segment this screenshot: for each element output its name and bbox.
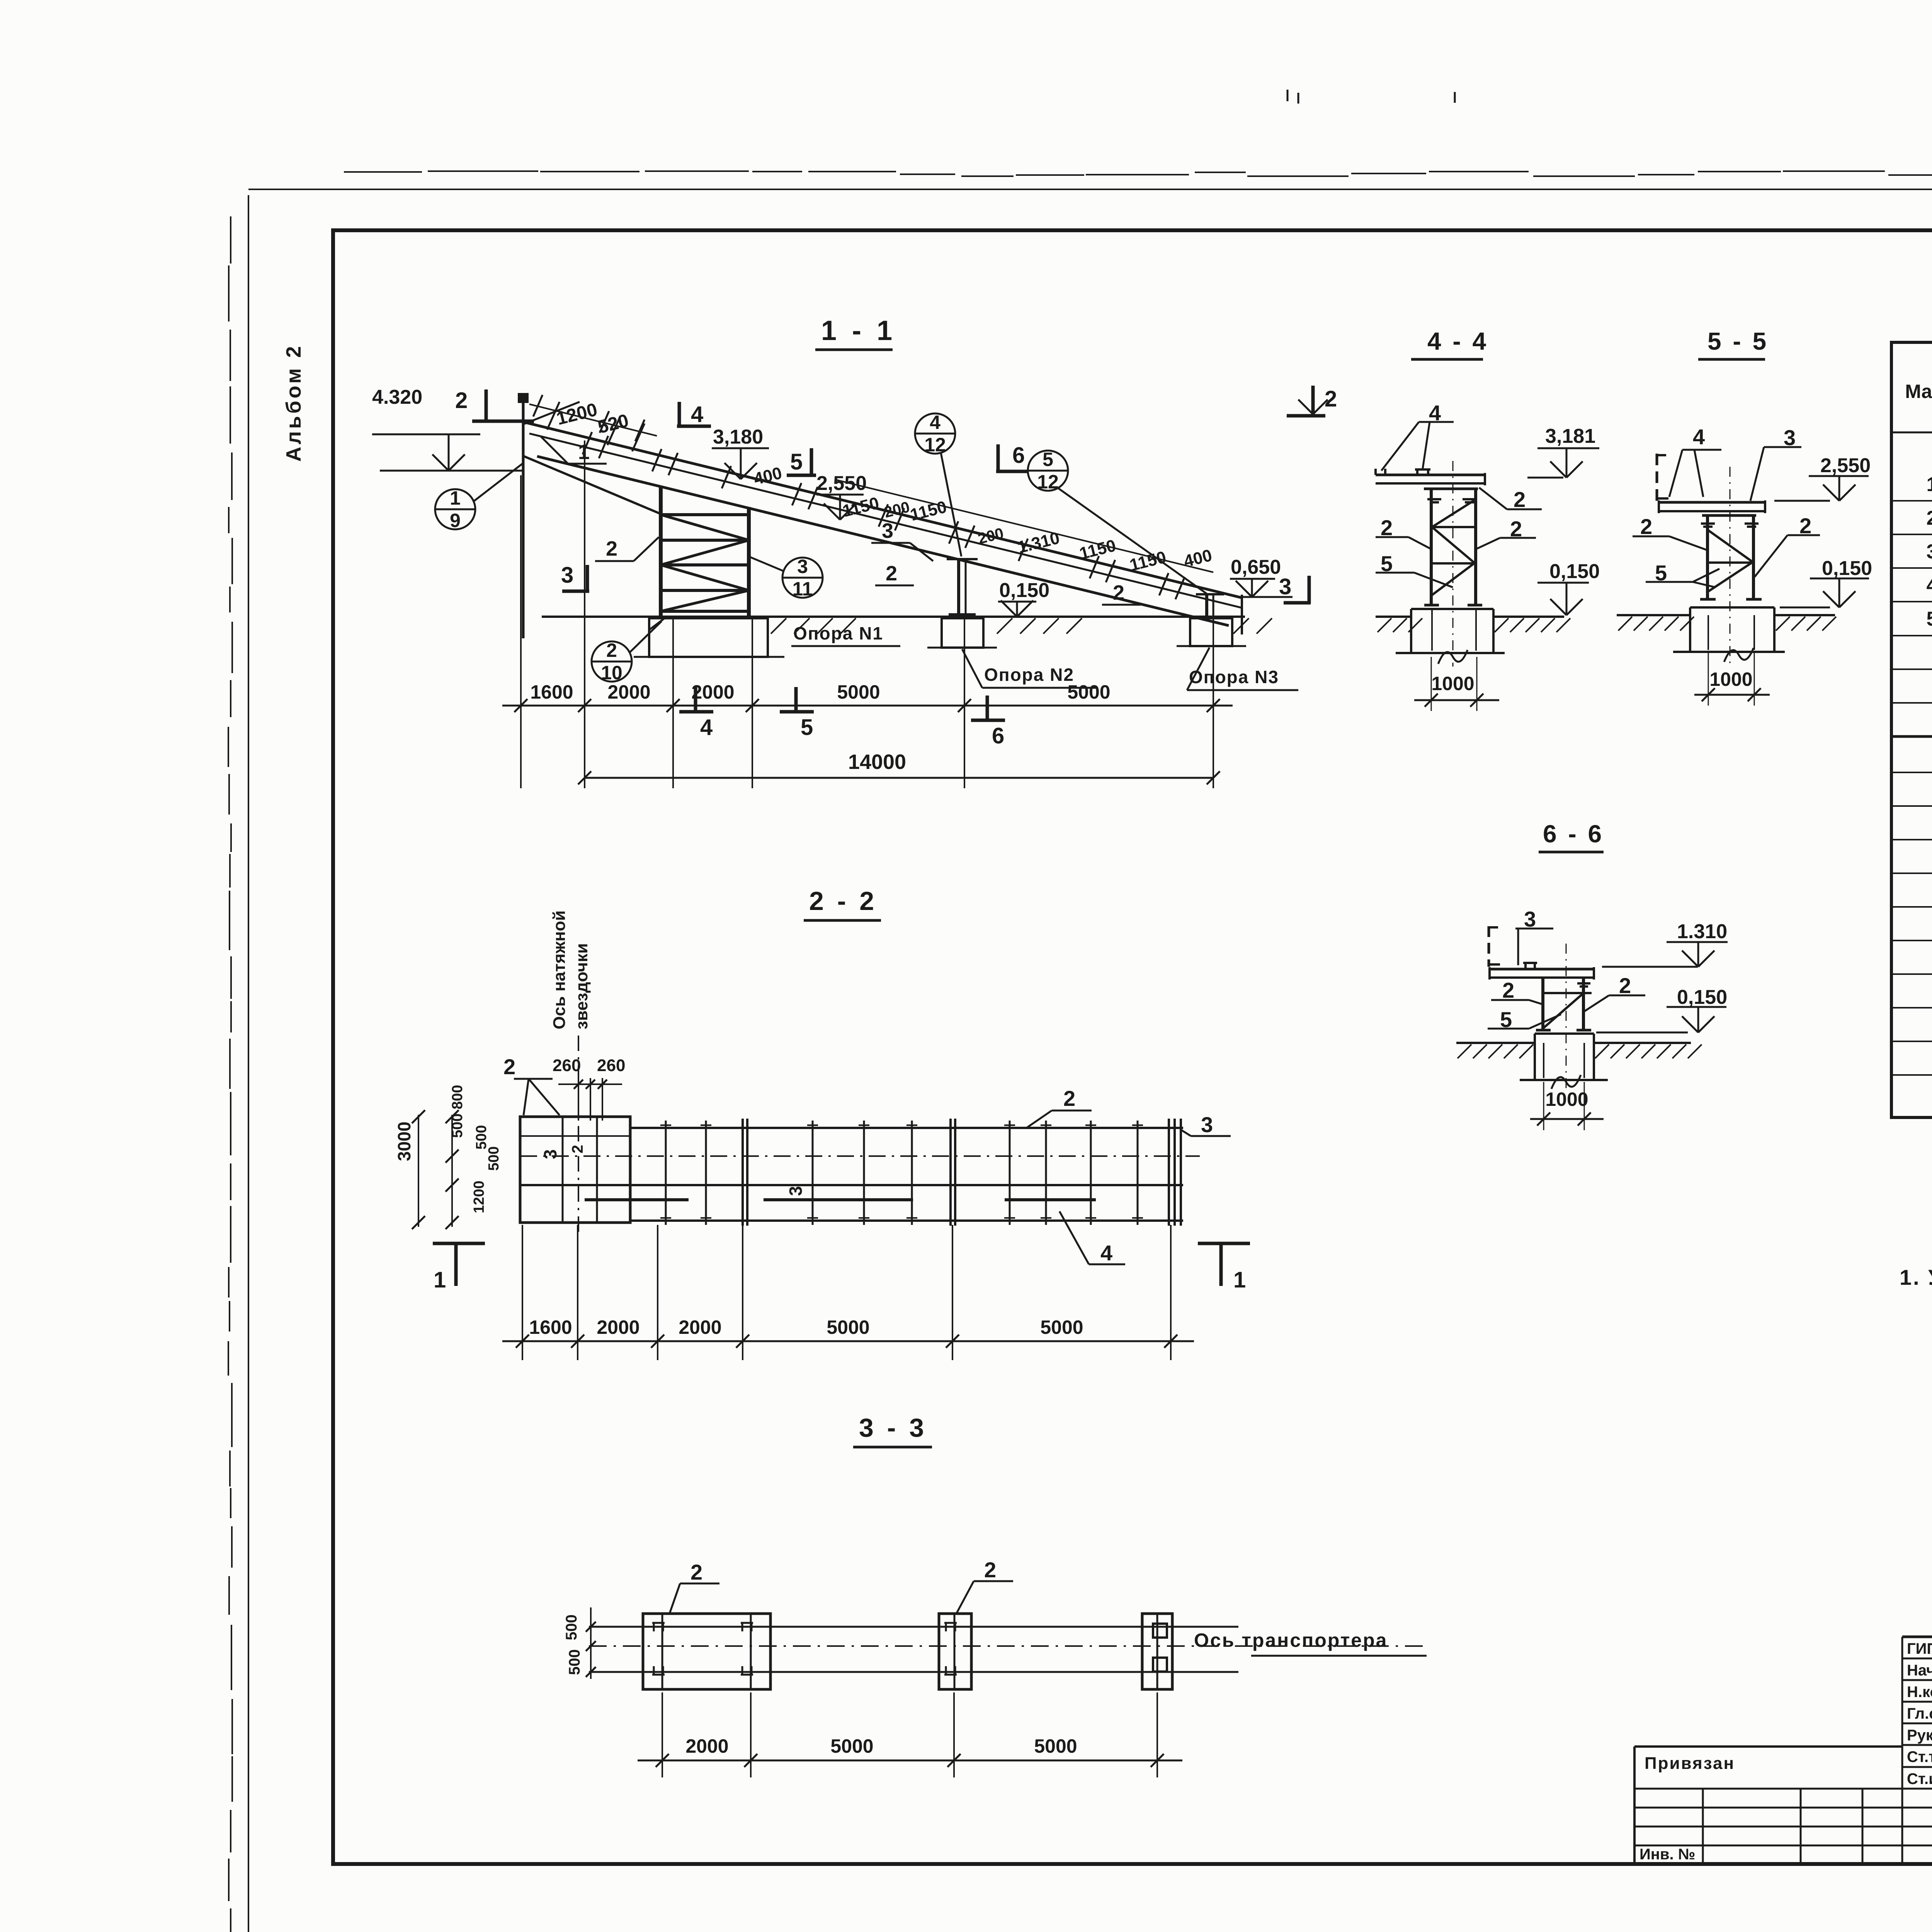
6-6 deck clip (1524, 962, 1527, 969)
svg-text:4: 4 (1100, 1241, 1112, 1265)
svg-text:Ст.инж.: Ст.инж. (1907, 1770, 1932, 1787)
svg-text:400: 400 (1182, 546, 1214, 571)
opora N1 lattice tower left column (659, 486, 663, 618)
3-3 right footing column (1156, 1614, 1158, 1689)
table second section row lines (1891, 772, 1932, 773)
svg-text:200: 200 (976, 525, 1005, 548)
svg-text:Рук.гр.: Рук.гр. (1907, 1727, 1932, 1744)
svg-text:2: 2 (1502, 978, 1514, 1002)
6-6 flange marks right (1577, 982, 1590, 985)
svg-text:Ось транспортера: Ось транспортера (1194, 1629, 1388, 1651)
svg-text:2: 2 (984, 1558, 996, 1582)
svg-text:2: 2 (1619, 973, 1631, 998)
svg-text:1: 1 (450, 487, 461, 509)
svg-text:1000: 1000 (1431, 673, 1474, 694)
plan top rail (630, 1127, 1183, 1129)
3-3 channel clips mid footing (945, 1622, 947, 1631)
svg-text:3: 3 (1279, 574, 1291, 599)
svg-text:1.310: 1.310 (1677, 920, 1727, 943)
svg-text:2: 2 (886, 562, 897, 585)
svg-text:Опора N2: Опора N2 (984, 665, 1074, 685)
mark circle 3/11 (782, 558, 823, 598)
mark circle 4/12 (915, 413, 955, 454)
svg-text:260: 260 (597, 1056, 625, 1075)
4-4 foundation (1411, 608, 1493, 610)
svg-text:1200: 1200 (554, 399, 599, 429)
5-5 cap plate (1702, 514, 1756, 517)
svg-text:2000: 2000 (597, 1316, 639, 1338)
table first section row lines (1891, 500, 1932, 502)
5-5 break squiggle (1724, 648, 1753, 662)
svg-text:4.320: 4.320 (372, 386, 422, 408)
section flag 6 bottom (986, 696, 989, 719)
opora N2 foundation (942, 618, 983, 648)
ground hatch N2 to N3 patch (997, 618, 1012, 634)
svg-text:2: 2 (1325, 386, 1337, 412)
3-3 right footing (1142, 1614, 1172, 1689)
4-4 column flanges (1430, 489, 1433, 605)
4-4 centerline (1452, 461, 1454, 667)
svg-text:Гл.спец.: Гл.спец. (1907, 1705, 1932, 1722)
top stray marks (1287, 90, 1289, 101)
svg-text:5000: 5000 (837, 681, 880, 703)
5-5 base plates (1700, 598, 1716, 601)
svg-text:3: 3 (797, 556, 808, 577)
3-3 top line (589, 1626, 1238, 1628)
svg-text:5000: 5000 (1040, 1316, 1083, 1338)
plan dashed chord segments (585, 1198, 689, 1201)
5-5 deck plank (1659, 501, 1765, 504)
svg-text:0,150: 0,150 (1822, 557, 1872, 580)
section marker 1 right (1198, 1242, 1250, 1245)
section flag 4 bottom (694, 687, 697, 711)
truss joint ticks (583, 432, 592, 454)
5-5 foundation (1690, 606, 1774, 609)
section flag 5 bottom (794, 687, 798, 711)
4-4 column braces (1431, 526, 1476, 528)
svg-text:Привязан: Привязан (1645, 1754, 1735, 1773)
svg-text:2000: 2000 (679, 1316, 721, 1338)
mast dim line along chord (529, 404, 657, 436)
opora N2 base (949, 613, 976, 616)
svg-text:2: 2 (569, 1145, 586, 1153)
privyazan box (1634, 1745, 1902, 1748)
6-6 foundation (1535, 1032, 1594, 1035)
plan center dashdot (520, 1155, 1200, 1157)
svg-text:5: 5 (1043, 449, 1053, 470)
3-3 left footing columns (662, 1614, 663, 1689)
svg-text:2: 2 (1063, 1086, 1075, 1111)
svg-text:6: 6 (992, 723, 1004, 748)
svg-text:2,550: 2,550 (816, 472, 867, 495)
svg-text:1150: 1150 (841, 493, 881, 521)
6-6 column flanges (1541, 978, 1544, 1030)
svg-text:1000: 1000 (1709, 668, 1752, 690)
svg-text:2: 2 (1927, 507, 1932, 529)
svg-text:4: 4 (691, 402, 703, 427)
svg-text:Опора N1: Опора N1 (793, 623, 883, 643)
svg-text:0,650: 0,650 (1231, 556, 1281, 578)
5-5 centerline (1730, 467, 1731, 664)
svg-text:4 - 4: 4 - 4 (1427, 327, 1488, 355)
6-6 base plates (1536, 1029, 1551, 1032)
svg-text:1: 1 (1233, 1267, 1246, 1293)
plan small joint ticks (660, 1124, 671, 1126)
slanted dim ticks near mast (547, 402, 560, 430)
plan cross members (562, 1117, 564, 1223)
svg-text:Альбом 2: Альбом 2 (282, 344, 305, 462)
svg-text:2: 2 (503, 1054, 515, 1079)
plan left box (520, 1117, 630, 1223)
plan bottom rail (630, 1219, 1183, 1222)
4-4 flange marks (1427, 498, 1441, 500)
svg-text:5 - 5: 5 - 5 (1708, 327, 1769, 355)
svg-text:1150: 1150 (908, 497, 949, 525)
table outer border (1891, 342, 1932, 1117)
svg-text:2: 2 (1514, 487, 1526, 512)
5-5 column flanges (1706, 515, 1709, 599)
opora N3 foundation (1190, 618, 1232, 646)
torn paper top edge (344, 171, 422, 173)
svg-text:260: 260 (553, 1056, 581, 1075)
svg-text:4: 4 (1927, 574, 1932, 597)
svg-text:0,150: 0,150 (1549, 560, 1600, 583)
svg-text:2: 2 (1113, 581, 1124, 604)
svg-text:4: 4 (930, 412, 940, 433)
3-3 channel clips left footing (653, 1622, 655, 1631)
svg-text:звездочки: звездочки (572, 943, 591, 1029)
6-6 centerline (1566, 944, 1567, 1090)
opora N1 foundation (649, 618, 768, 657)
svg-text:5: 5 (790, 449, 803, 474)
svg-text:ГИП: ГИП (1907, 1640, 1932, 1657)
5-5 ground line (1617, 614, 1690, 616)
svg-text:0,150: 0,150 (1677, 986, 1727, 1009)
titleblock signature table frame (1902, 1636, 1932, 1638)
svg-text:0,150: 0,150 (999, 579, 1049, 602)
dim chain 1-1 ticks (514, 699, 527, 712)
plan inner top rail (520, 1135, 630, 1137)
svg-text:Марка: Марка (1905, 381, 1932, 402)
svg-text:Ось натяжной: Ось натяжной (550, 910, 569, 1029)
3-3 square clips right footing (1153, 1624, 1167, 1638)
5-5 flange marks (1701, 522, 1715, 525)
mark circle 2/10 (592, 641, 632, 682)
4-4 break squiggle (1438, 650, 1468, 664)
4-4 top beam (1376, 474, 1485, 476)
section marker 1 left (433, 1242, 485, 1245)
opora N1 brace from mast (523, 456, 661, 514)
svg-text:3,181: 3,181 (1545, 425, 1595, 447)
outer sheet frame (248, 195, 249, 1932)
opora N1 lattice tower right column (747, 507, 751, 618)
total dim 14000 line (585, 777, 1213, 779)
4-4 beam clips (1416, 469, 1418, 475)
5-5 left channel dashed (1656, 454, 1658, 501)
6-6 ground line (1456, 1042, 1535, 1044)
mark circle 1/9 (435, 489, 475, 529)
ground hatch right of N3 (1233, 618, 1249, 634)
svg-text:500: 500 (473, 1125, 490, 1150)
table opora heavy divider (1891, 735, 1932, 738)
svg-text:Опора N3: Опора N3 (1189, 667, 1279, 687)
5-5 column braces (1708, 530, 1752, 561)
dim chain 2-2 extensions (522, 1225, 523, 1360)
svg-text:Н.контр.: Н.контр. (1907, 1684, 1932, 1701)
svg-text:3: 3 (1201, 1112, 1213, 1137)
axis centerline 2-2 (578, 1036, 579, 1233)
dim chain 2-2 line (502, 1340, 1194, 1342)
6-6 break squiggle (1551, 1075, 1581, 1089)
svg-text:2: 2 (690, 1560, 702, 1584)
svg-text:2000: 2000 (685, 1735, 728, 1757)
6-6 deck plank (1490, 968, 1594, 971)
4-4 cap plate (1424, 488, 1478, 490)
mast vertical (522, 398, 525, 638)
svg-text:2: 2 (606, 639, 617, 661)
3-3 bottom line (589, 1671, 1238, 1673)
svg-text:11: 11 (793, 578, 813, 600)
svg-text:3: 3 (786, 1186, 806, 1196)
svg-text:4: 4 (1693, 425, 1705, 449)
svg-text:1: 1 (434, 1267, 446, 1293)
ground line view 1-1 (542, 616, 1245, 618)
svg-text:3 - 3: 3 - 3 (859, 1413, 927, 1442)
3-3 dim line (638, 1760, 1182, 1762)
mast head diagonal stay (523, 402, 580, 424)
svg-text:Ст.тех.: Ст.тех. (1907, 1748, 1932, 1765)
svg-text:Инв. №: Инв. № (1639, 1846, 1695, 1863)
svg-text:14000: 14000 (848, 750, 906, 774)
svg-text:500: 500 (486, 1146, 502, 1171)
svg-text:9: 9 (450, 510, 461, 531)
3-3 left footing (643, 1614, 770, 1689)
6-6 left channel dashed (1488, 926, 1490, 967)
conveyor bottom chord (537, 456, 1229, 626)
svg-text:3: 3 (882, 519, 893, 543)
dim chain 1-1 line (502, 705, 1233, 707)
4-4 ground line (1376, 616, 1411, 618)
section flag 2 top-right (1311, 386, 1315, 414)
svg-text:1: 1 (1927, 473, 1932, 496)
svg-text:6: 6 (1012, 443, 1025, 468)
svg-text:4: 4 (700, 715, 713, 740)
svg-text:1. Указания смотри на л: 1. Указания смотри на листе КМ-1. (1900, 1265, 1932, 1289)
svg-text:5000: 5000 (830, 1735, 873, 1757)
svg-text:2: 2 (1640, 514, 1652, 539)
svg-text:3,180: 3,180 (713, 426, 763, 448)
svg-text:2,550: 2,550 (1820, 454, 1871, 477)
svg-text:3: 3 (561, 563, 573, 588)
conveyor second chord line (529, 434, 1242, 608)
leader 2/10 to foundation (649, 618, 665, 630)
svg-text:12: 12 (924, 434, 946, 456)
svg-text:3000: 3000 (394, 1122, 414, 1161)
svg-text:Нач.отд.: Нач.отд. (1907, 1662, 1932, 1679)
opora N1 rungs and braces (661, 513, 749, 516)
ground hatch right of N1 (771, 618, 786, 634)
3-3 middle footing (939, 1614, 971, 1689)
torn paper left edge (230, 216, 231, 264)
svg-text:500: 500 (563, 1614, 580, 1640)
svg-text:1000: 1000 (1545, 1088, 1588, 1110)
svg-text:2: 2 (606, 537, 617, 560)
plan double cross members (742, 1119, 744, 1226)
3-3 mid footing column (954, 1614, 956, 1689)
svg-text:10: 10 (601, 662, 622, 684)
svg-text:1 - 1: 1 - 1 (821, 315, 896, 346)
6-6 column rung and brace (1543, 992, 1592, 994)
svg-text:200: 200 (883, 498, 912, 521)
svg-text:1600: 1600 (530, 681, 573, 703)
svg-text:5: 5 (1927, 608, 1932, 630)
3-3 center dashdot (589, 1645, 1430, 1647)
svg-text:2: 2 (455, 388, 468, 413)
svg-text:2 - 2: 2 - 2 (809, 886, 877, 916)
svg-text:2000: 2000 (607, 681, 650, 703)
titleblock lower grid (1634, 1788, 1932, 1790)
svg-text:500: 500 (566, 1649, 583, 1675)
svg-text:5000: 5000 (1034, 1735, 1077, 1757)
svg-text:5000: 5000 (827, 1316, 869, 1338)
4-4 base plates (1424, 604, 1439, 607)
svg-text:12: 12 (1037, 471, 1059, 493)
conveyor top chord (523, 422, 1242, 598)
svg-text:1200: 1200 (471, 1180, 487, 1213)
dim chain line above chord (835, 480, 1213, 572)
svg-text:5: 5 (801, 715, 813, 740)
opora N2 column (957, 559, 960, 617)
mark circle 5/12 (1028, 451, 1068, 491)
svg-text:5000: 5000 (1067, 681, 1110, 703)
svg-text:1600: 1600 (529, 1316, 572, 1338)
main drawing border (333, 230, 1932, 1864)
svg-text:3: 3 (1927, 541, 1932, 563)
svg-text:3: 3 (540, 1149, 560, 1159)
conveyor end face right (1241, 595, 1243, 634)
3-3 dim chain extensions (662, 1692, 663, 1777)
svg-text:6 - 6: 6 - 6 (1543, 820, 1604, 848)
dim chain 1-1 extension lines (520, 475, 522, 788)
svg-text:2000: 2000 (691, 681, 734, 703)
plan mid rail (520, 1184, 1183, 1186)
opora N3 column (1205, 595, 1208, 617)
